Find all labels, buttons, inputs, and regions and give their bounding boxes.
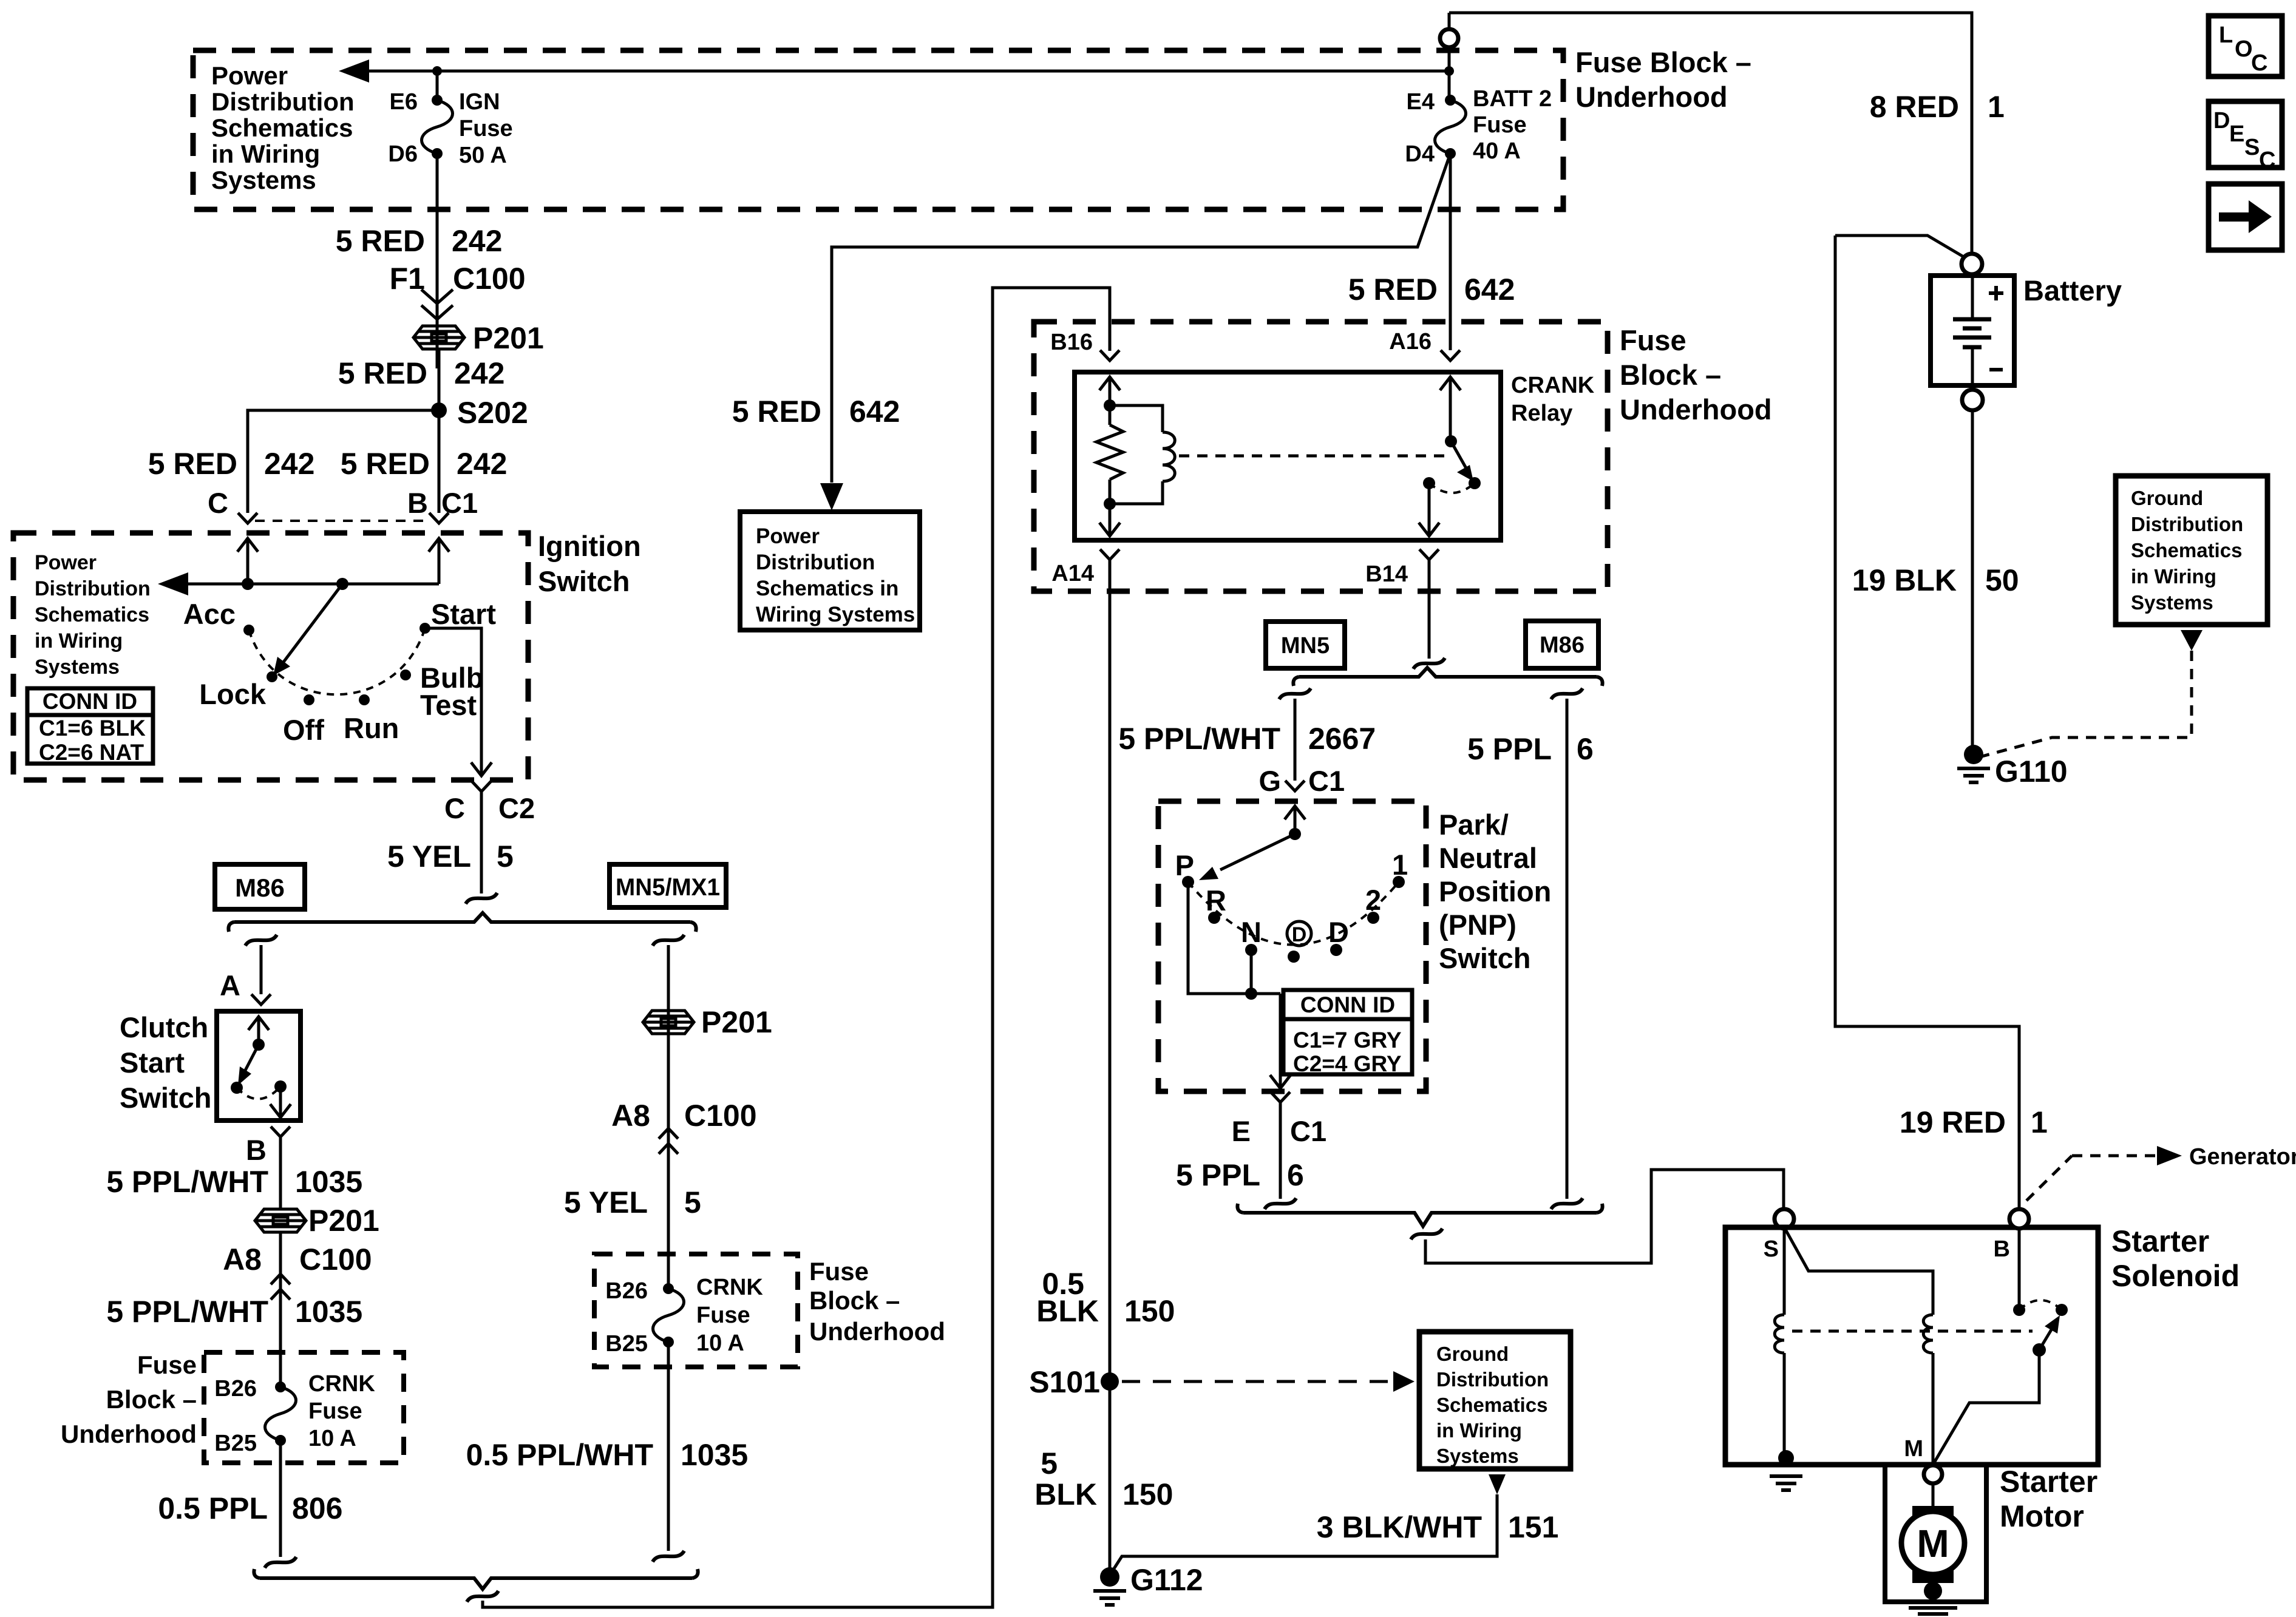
battery feed jog bbox=[1835, 236, 1965, 257]
wire: D4 down to A16 bbox=[1449, 154, 1452, 350]
connector P201 (clutch branch) bbox=[255, 1209, 306, 1232]
svg-text:806: 806 bbox=[292, 1491, 342, 1525]
wire: N contact down bbox=[1250, 950, 1253, 994]
solenoid switch blade bbox=[2039, 1326, 2054, 1350]
solenoid contact B bbox=[2013, 1304, 2025, 1316]
svg-text:19 BLK: 19 BLK bbox=[1852, 563, 1957, 597]
relay output to B14 bbox=[1428, 483, 1431, 521]
harness box M86 bbox=[1526, 621, 1598, 668]
terminal (fuse block feed) bbox=[1440, 29, 1458, 47]
node bbox=[1104, 498, 1116, 510]
svg-text:P201: P201 bbox=[308, 1204, 379, 1238]
wire: fuse block feed from battery bbox=[1449, 13, 1972, 254]
svg-text:Systems: Systems bbox=[2131, 591, 2213, 614]
dashed contact arc bbox=[1429, 483, 1475, 493]
svg-text:1: 1 bbox=[2031, 1105, 2048, 1139]
dashed contact arc bbox=[2019, 1300, 2062, 1310]
svg-text:MN5: MN5 bbox=[1281, 633, 1330, 659]
svg-text:P201: P201 bbox=[473, 321, 544, 355]
box: Fuse Block Underhood (CRANK relay, dashed) bbox=[1034, 322, 1608, 591]
svg-text:C100: C100 bbox=[684, 1099, 757, 1133]
relay switch common bbox=[1445, 435, 1457, 447]
label: CRANK Relay bbox=[1511, 373, 1595, 426]
label: Fuse Block - Underhood bbox=[61, 1351, 197, 1448]
reference box LOC bbox=[2209, 16, 2282, 76]
battery cells bbox=[1971, 276, 1974, 385]
reference box DESC bbox=[2209, 101, 2282, 168]
svg-text:S: S bbox=[1764, 1236, 1779, 1262]
svg-text:Distribution: Distribution bbox=[1436, 1368, 1549, 1391]
terminal arrow C (inside box) bbox=[237, 538, 258, 564]
svg-text:D: D bbox=[2213, 108, 2230, 134]
wire: ignition feed bus bbox=[186, 583, 439, 586]
harness box MN5 bbox=[1266, 622, 1345, 668]
svg-text:L: L bbox=[2219, 22, 2233, 48]
box: Fuse Block Underhood (left CRNK, dashed) bbox=[204, 1352, 404, 1463]
connector P201 (pass-through) bbox=[413, 326, 464, 349]
svg-text:Underhood: Underhood bbox=[61, 1420, 197, 1448]
svg-text:642: 642 bbox=[1464, 273, 1515, 307]
svg-text:5 RED: 5 RED bbox=[148, 447, 237, 481]
box: Power Distribution Schematics (top, dashed, contains IGN + BATT 2 fuses) bbox=[193, 50, 1563, 209]
svg-text:S: S bbox=[2244, 135, 2260, 160]
relay coil bbox=[1110, 405, 1163, 432]
svg-text:Underhood: Underhood bbox=[1620, 393, 1772, 425]
svg-text:10 A: 10 A bbox=[696, 1331, 744, 1356]
svg-text:Position: Position bbox=[1439, 875, 1551, 907]
svg-text:Park/: Park/ bbox=[1439, 808, 1509, 841]
arrow from Ground Distribution box bbox=[2181, 630, 2203, 651]
svg-text:1035: 1035 bbox=[681, 1438, 748, 1472]
fuse CRNK 10 A (left) bbox=[265, 1381, 296, 1446]
connector fork A14 bbox=[1100, 549, 1119, 560]
label: Starter Solenoid bbox=[2111, 1224, 2240, 1293]
svg-text:5 PPL/WHT: 5 PPL/WHT bbox=[106, 1295, 268, 1329]
svg-text:Fuse: Fuse bbox=[1620, 324, 1686, 356]
svg-text:M: M bbox=[1917, 1522, 1949, 1565]
svg-text:Fuse: Fuse bbox=[459, 116, 513, 141]
svg-text:Motor: Motor bbox=[2000, 1499, 2084, 1533]
svg-text:B26: B26 bbox=[214, 1376, 257, 1402]
node bbox=[1104, 399, 1116, 412]
battery minus sign bbox=[1989, 368, 2003, 371]
svg-text:Power: Power bbox=[35, 551, 97, 574]
battery plus sign bbox=[1989, 286, 2003, 300]
svg-text:Fuse: Fuse bbox=[696, 1303, 750, 1328]
label: CRNK Fuse 10 A bbox=[308, 1371, 375, 1451]
svg-text:5 YEL: 5 YEL bbox=[564, 1185, 648, 1219]
box: Ground Distribution Schematics (middle) bbox=[1419, 1332, 1571, 1469]
ground G110 bbox=[1964, 745, 1983, 764]
svg-text:Clutch: Clutch bbox=[120, 1011, 208, 1043]
dashed position arc bbox=[1188, 882, 1399, 945]
box: Clutch Start Switch bbox=[217, 1011, 301, 1120]
terminal S bbox=[1775, 1209, 1794, 1229]
svg-text:5: 5 bbox=[497, 839, 514, 873]
svg-text:D: D bbox=[1328, 916, 1349, 948]
svg-text:in Wiring: in Wiring bbox=[2131, 565, 2216, 588]
connector P201 (MN5 branch) bbox=[643, 1011, 694, 1034]
svg-text:D4: D4 bbox=[1405, 141, 1435, 167]
svg-text:C: C bbox=[2259, 147, 2275, 173]
node bbox=[2033, 1343, 2046, 1357]
svg-text:M86: M86 bbox=[1540, 632, 1584, 658]
svg-text:Schematics in: Schematics in bbox=[756, 577, 898, 600]
node: junction with top feed bbox=[1444, 66, 1454, 76]
svg-text:M: M bbox=[1904, 1436, 1923, 1462]
connector fork E/C1 bbox=[1271, 1092, 1290, 1102]
svg-text:C1=6 BLK: C1=6 BLK bbox=[39, 716, 146, 741]
svg-text:Switch: Switch bbox=[120, 1082, 211, 1114]
svg-text:B: B bbox=[1994, 1236, 2010, 1262]
svg-text:Distribution: Distribution bbox=[2131, 513, 2243, 535]
svg-text:C: C bbox=[444, 792, 465, 824]
svg-text:BLK: BLK bbox=[1034, 1477, 1097, 1511]
wire: P201 to CRNK fuse bbox=[279, 1232, 282, 1387]
svg-text:5: 5 bbox=[1041, 1446, 1058, 1480]
svg-text:C1: C1 bbox=[1290, 1115, 1326, 1147]
connector fork C2 bbox=[472, 781, 491, 792]
svg-text:N: N bbox=[1241, 916, 1262, 948]
svg-text:10 A: 10 A bbox=[308, 1426, 356, 1451]
svg-text:O: O bbox=[2235, 36, 2253, 62]
svg-text:Power: Power bbox=[211, 61, 288, 90]
box: Fuse Block Underhood (right CRNK, dashed) bbox=[594, 1254, 798, 1367]
svg-text:Schematics: Schematics bbox=[211, 114, 353, 142]
arrow into Ground Distribution box bbox=[1393, 1371, 1415, 1392]
connector C100 chevrons (up) bbox=[271, 1274, 290, 1284]
svg-text:6: 6 bbox=[1287, 1158, 1304, 1192]
svg-text:Fuse Block –: Fuse Block – bbox=[1575, 46, 1751, 78]
svg-text:Block –: Block – bbox=[809, 1286, 900, 1315]
dashed solenoid actuation link bbox=[1792, 1330, 2033, 1333]
svg-text:Distribution: Distribution bbox=[756, 551, 875, 574]
circled D indicator bbox=[1287, 921, 1311, 946]
svg-text:50 A: 50 A bbox=[459, 143, 507, 168]
svg-text:2: 2 bbox=[1365, 884, 1381, 916]
svg-text:5 RED: 5 RED bbox=[732, 395, 821, 429]
wire: bus return to fuse block B16 bbox=[483, 288, 1110, 1607]
svg-text:8 RED: 8 RED bbox=[1870, 90, 1959, 124]
svg-text:B: B bbox=[407, 487, 428, 519]
label: Park/Neutral Position (PNP) Switch bbox=[1439, 808, 1551, 974]
svg-text:in Wiring: in Wiring bbox=[211, 140, 320, 168]
svg-text:CRNK: CRNK bbox=[696, 1275, 763, 1300]
CONN ID table (ignition) bbox=[27, 688, 153, 764]
node to case ground bbox=[1778, 1450, 1794, 1466]
wire: B down to P201 bbox=[279, 1137, 282, 1210]
svg-text:5 PPL/WHT: 5 PPL/WHT bbox=[106, 1165, 268, 1199]
wire: A14 down to S101 and G112 bbox=[1109, 560, 1112, 1573]
svg-text:5 RED: 5 RED bbox=[1348, 273, 1438, 307]
relay coil exit arrow (A14) bbox=[1109, 504, 1112, 521]
svg-text:Underhood: Underhood bbox=[809, 1317, 945, 1346]
wire: feed to E6 bbox=[436, 71, 439, 100]
svg-text:151: 151 bbox=[1508, 1510, 1558, 1544]
wire: B25 down to bus bbox=[279, 1440, 282, 1557]
svg-text:S101: S101 bbox=[1029, 1365, 1100, 1399]
svg-text:Fuse: Fuse bbox=[308, 1398, 362, 1424]
label: Fuse Block - Underhood (top) bbox=[1575, 46, 1751, 113]
svg-text:5 PPL: 5 PPL bbox=[1467, 732, 1552, 766]
wire: 3 BLK/WHT 151 to G112 bbox=[1111, 1494, 1497, 1573]
svg-text:5 PPL/WHT: 5 PPL/WHT bbox=[1118, 722, 1280, 756]
wire: D4 branch to 642 arrow bbox=[832, 154, 1450, 483]
svg-text:Relay: Relay bbox=[1511, 401, 1572, 426]
relay switch blade bbox=[1451, 441, 1467, 469]
splice S101 bbox=[1101, 1372, 1119, 1391]
ground G112 bbox=[1100, 1567, 1119, 1587]
svg-text:3 BLK/WHT: 3 BLK/WHT bbox=[1317, 1510, 1482, 1544]
connector C100 chevrons (up) bbox=[659, 1128, 678, 1139]
PNP position contacts P R N x D 2 1 bbox=[1182, 876, 1194, 888]
svg-text:BLK: BLK bbox=[1036, 1294, 1099, 1328]
wire: D6 down to C100 connector bbox=[436, 154, 439, 368]
wire: S202 down to ignition switch pin B bbox=[438, 410, 441, 513]
svg-text:P: P bbox=[1175, 849, 1194, 881]
battery + terminal bbox=[1961, 254, 1982, 274]
svg-text:CRNK: CRNK bbox=[308, 1371, 375, 1397]
ignition rotor blade with arrowhead bbox=[283, 584, 342, 663]
svg-text:B25: B25 bbox=[605, 1331, 648, 1357]
svg-text:1035: 1035 bbox=[295, 1165, 362, 1199]
svg-text:E: E bbox=[1232, 1115, 1251, 1147]
svg-text:G: G bbox=[1258, 765, 1281, 797]
node: junction of IGN fuse feed bbox=[432, 66, 442, 76]
wire: S to hold-in coil bbox=[1784, 1227, 1933, 1315]
arrow into Power Distribution box (middle) bbox=[820, 483, 843, 510]
harness box MN5/MX1 bbox=[610, 864, 726, 907]
wire: B into contacts bbox=[2018, 1229, 2021, 1310]
wire: 19 RED battery feed to B bbox=[1835, 236, 2019, 1209]
svg-text:C100: C100 bbox=[299, 1242, 372, 1276]
svg-text:Acc: Acc bbox=[183, 598, 236, 630]
svg-text:B14: B14 bbox=[1365, 561, 1408, 587]
connector C100 chevrons bbox=[421, 290, 453, 319]
svg-text:IGN: IGN bbox=[459, 89, 500, 115]
wire: battery negative to G110 bbox=[1971, 410, 1974, 747]
dashed link to Ground Distribution box (middle) bbox=[1122, 1380, 1389, 1383]
wire: to E with arrow bbox=[1279, 994, 1282, 1074]
wire: B25 down to bus bbox=[667, 1343, 670, 1551]
clutch switch blade bbox=[243, 1045, 259, 1075]
fuse BATT 2 40 A (E4-D4) bbox=[1435, 95, 1466, 159]
svg-text:Fuse: Fuse bbox=[1473, 112, 1527, 138]
svg-text:C: C bbox=[2251, 50, 2267, 76]
terminal arrow B (inside box) bbox=[429, 538, 449, 564]
solenoid hold-in coil (right) bbox=[1923, 1315, 1933, 1353]
svg-text:242: 242 bbox=[452, 224, 502, 258]
svg-text:E: E bbox=[2229, 121, 2244, 147]
label: Fuse Block - Underhood bbox=[1620, 324, 1772, 425]
svg-text:Solenoid: Solenoid bbox=[2111, 1259, 2240, 1293]
svg-text:Off: Off bbox=[283, 714, 324, 746]
svg-text:40 A: 40 A bbox=[1473, 138, 1521, 164]
solenoid contact (moving) bbox=[2056, 1304, 2068, 1316]
svg-text:in Wiring: in Wiring bbox=[35, 629, 123, 653]
terminal B bbox=[2009, 1209, 2029, 1229]
svg-text:5 RED: 5 RED bbox=[336, 224, 425, 258]
relay CRANK (solid box) bbox=[1075, 372, 1501, 540]
ground (motor) bbox=[1909, 1608, 1957, 1617]
PNP selector blade bbox=[1220, 834, 1295, 870]
svg-text:Ground: Ground bbox=[1436, 1343, 1509, 1365]
svg-text:Wiring Systems: Wiring Systems bbox=[756, 603, 915, 626]
svg-text:Test: Test bbox=[420, 689, 477, 721]
svg-text:Start: Start bbox=[431, 598, 496, 630]
svg-text:242: 242 bbox=[457, 447, 507, 481]
svg-text:A8: A8 bbox=[223, 1242, 262, 1276]
wire: M to motor bbox=[1932, 1483, 1935, 1508]
svg-text:CONN ID: CONN ID bbox=[42, 689, 137, 714]
wire: P201 to S202 bbox=[438, 349, 441, 410]
svg-text:F1: F1 bbox=[390, 262, 425, 296]
svg-text:C1=7 GRY: C1=7 GRY bbox=[1293, 1028, 1402, 1053]
position contacts: Acc Lock Off Run Bulb Start bbox=[243, 625, 254, 636]
wire to B with arrow bbox=[279, 1086, 282, 1100]
PNP terminal arrow (G) bbox=[1285, 806, 1305, 832]
dashed relay actuation link bbox=[1179, 455, 1448, 458]
svg-text:0.5 PPL/WHT: 0.5 PPL/WHT bbox=[466, 1438, 653, 1472]
svg-text:242: 242 bbox=[264, 447, 314, 481]
svg-text:MN5/MX1: MN5/MX1 bbox=[616, 874, 720, 901]
wire: brace drop to PNP G bbox=[1279, 688, 1311, 699]
svg-text:Ground: Ground bbox=[2131, 487, 2203, 509]
motor armature bbox=[1912, 1506, 1954, 1523]
dashed connector tie C1 bbox=[255, 520, 425, 522]
dashed position arc bbox=[249, 628, 425, 694]
wire: E down to brace bbox=[1279, 1102, 1282, 1199]
svg-text:B25: B25 bbox=[214, 1431, 257, 1456]
svg-text:A16: A16 bbox=[1389, 329, 1432, 354]
svg-text:Schematics: Schematics bbox=[35, 603, 149, 626]
splice bus brace (M86 / MN5-MX1) bbox=[228, 913, 696, 932]
svg-text:Lock: Lock bbox=[199, 678, 267, 710]
node: C junction bbox=[242, 578, 254, 590]
label: Power Distribution Schematics in Wiring Systems (top-left) bbox=[211, 61, 355, 194]
svg-text:M86: M86 bbox=[235, 873, 285, 902]
svg-text:D6: D6 bbox=[388, 141, 418, 167]
box: Park/Neutral Position Switch (dashed) bbox=[1158, 801, 1426, 1091]
reference box arrow bbox=[2209, 184, 2282, 250]
wire: B14 down to brace bbox=[1428, 560, 1431, 659]
svg-text:50: 50 bbox=[1985, 563, 2019, 597]
connector fork at C bbox=[238, 513, 257, 523]
arrow to Power Distribution (inside ignition box) bbox=[158, 572, 188, 595]
svg-text:G112: G112 bbox=[1130, 1563, 1203, 1597]
fuse CRNK 10 A (right) bbox=[653, 1283, 684, 1347]
wire: brace to starter solenoid S bbox=[1425, 1170, 1784, 1263]
svg-text:Ignition: Ignition bbox=[538, 530, 641, 562]
label: CRNK Fuse 10 A bbox=[696, 1275, 763, 1356]
svg-text:Generator: Generator bbox=[2189, 1144, 2296, 1170]
arrow from Ground Distribution box (middle) bbox=[1489, 1474, 1506, 1494]
svg-text:5: 5 bbox=[684, 1185, 701, 1219]
label: Power Distribution Schematics in Wiring Systems (ignition box) bbox=[35, 551, 151, 679]
wire: Start contact to C2 exit bbox=[425, 628, 481, 762]
relay coil terminal arrow (B16) bbox=[1099, 377, 1120, 403]
svg-text:Distribution: Distribution bbox=[211, 87, 355, 116]
connector fork at B bbox=[429, 513, 449, 523]
svg-text:CONN ID: CONN ID bbox=[1300, 992, 1395, 1017]
svg-text:S202: S202 bbox=[457, 396, 528, 430]
svg-text:5 YEL: 5 YEL bbox=[387, 839, 471, 873]
svg-text:Underhood: Underhood bbox=[1575, 81, 1728, 113]
svg-text:Fuse: Fuse bbox=[137, 1351, 197, 1379]
svg-text:B16: B16 bbox=[1050, 330, 1093, 355]
solenoid pull-in coil (left) bbox=[1783, 1229, 1786, 1315]
svg-text:P201: P201 bbox=[701, 1005, 772, 1039]
motor ground node bbox=[1924, 1582, 1942, 1600]
svg-text:6: 6 bbox=[1577, 732, 1594, 766]
PNP pivot bbox=[1289, 828, 1301, 840]
svg-text:A8: A8 bbox=[611, 1099, 650, 1133]
svg-text:Run: Run bbox=[344, 712, 399, 744]
svg-text:Starter: Starter bbox=[2111, 1224, 2209, 1258]
svg-text:E6: E6 bbox=[390, 89, 418, 115]
battery - terminal bbox=[1962, 390, 1983, 410]
harness box M86 bbox=[215, 864, 305, 909]
svg-text:1: 1 bbox=[1988, 90, 2005, 124]
svg-text:(PNP): (PNP) bbox=[1439, 909, 1517, 941]
svg-text:Distribution: Distribution bbox=[35, 577, 151, 600]
svg-text:C2=4 GRY: C2=4 GRY bbox=[1293, 1051, 1402, 1076]
svg-text:Schematics: Schematics bbox=[1436, 1394, 1547, 1416]
wire: bus drop to clutch switch A bbox=[245, 935, 277, 946]
box: Ignition Switch (dashed) bbox=[13, 533, 528, 780]
svg-text:B26: B26 bbox=[605, 1278, 648, 1304]
svg-text:D: D bbox=[1292, 923, 1307, 946]
fuse IGN 50 A (E6-D6) bbox=[422, 95, 453, 159]
svg-text:A14: A14 bbox=[1051, 561, 1094, 586]
wire: bus drop to MN5/MX1 branch bbox=[653, 935, 684, 946]
node bbox=[1245, 988, 1257, 1000]
svg-text:Switch: Switch bbox=[538, 565, 630, 597]
svg-text:G110: G110 bbox=[1995, 754, 2068, 788]
label: Clutch Start Switch bbox=[120, 1011, 211, 1114]
svg-text:Fuse: Fuse bbox=[809, 1257, 869, 1286]
svg-text:242: 242 bbox=[454, 356, 504, 390]
wire: terminal to BATT 2 fuse bbox=[1448, 13, 1451, 100]
arrow into Power Distribution box (left) bbox=[339, 59, 369, 83]
label: IGN Fuse 50 A bbox=[459, 89, 513, 168]
terminal M bbox=[1924, 1465, 1942, 1483]
label: BATT 2 Fuse 40 A bbox=[1473, 86, 1552, 164]
svg-text:5 RED: 5 RED bbox=[338, 356, 427, 390]
svg-text:1: 1 bbox=[1392, 849, 1408, 881]
clutch switch pivot bbox=[253, 1039, 265, 1051]
svg-text:Systems: Systems bbox=[211, 166, 316, 194]
wire: P contact to E exit bbox=[1188, 882, 1280, 994]
connector fork G/C1 bbox=[1285, 781, 1305, 791]
arrow to Generator bbox=[2157, 1146, 2182, 1165]
svg-text:Systems: Systems bbox=[35, 656, 120, 679]
svg-text:B: B bbox=[246, 1134, 267, 1166]
svg-text:CRANK: CRANK bbox=[1511, 373, 1595, 398]
connector fork B14 bbox=[1419, 549, 1439, 560]
svg-text:150: 150 bbox=[1124, 1294, 1175, 1328]
connector fork A16 bbox=[1441, 350, 1460, 361]
svg-text:C100: C100 bbox=[453, 262, 526, 296]
svg-text:Start: Start bbox=[120, 1046, 185, 1079]
svg-text:5 RED: 5 RED bbox=[341, 447, 430, 481]
svg-text:Neutral: Neutral bbox=[1439, 842, 1537, 874]
splice brace (PNP outputs to starter) bbox=[1237, 1204, 1602, 1226]
svg-text:642: 642 bbox=[849, 395, 900, 429]
svg-text:1035: 1035 bbox=[295, 1295, 362, 1329]
svg-text:Schematics: Schematics bbox=[2131, 539, 2242, 561]
dashed contact arc bbox=[237, 1086, 280, 1099]
